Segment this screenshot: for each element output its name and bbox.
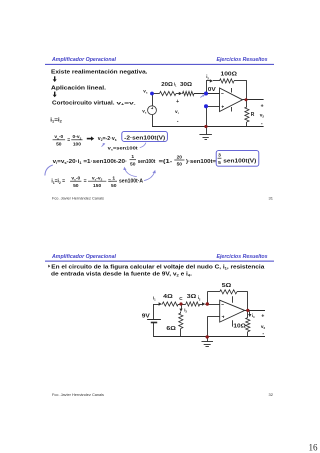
svg-text:1: 1 bbox=[131, 154, 134, 160]
svg-text:4Ω: 4Ω bbox=[163, 294, 173, 300]
svg-text:+: + bbox=[176, 99, 179, 105]
svg-text:vs-0: vs-0 bbox=[54, 134, 63, 140]
svg-text:v2: v2 bbox=[260, 114, 265, 119]
svg-text:=: = bbox=[84, 179, 87, 185]
svg-text:)·sen100t=: )·sen100t= bbox=[186, 159, 216, 165]
svg-text:32: 32 bbox=[269, 392, 274, 397]
svg-text:sen100t(V): sen100t(V) bbox=[223, 158, 256, 164]
svg-text:vs-0: vs-0 bbox=[71, 176, 80, 182]
svg-text:20: 20 bbox=[177, 154, 183, 160]
svg-text:-: - bbox=[177, 118, 179, 124]
svg-text:50: 50 bbox=[73, 183, 79, 189]
svg-text:50: 50 bbox=[56, 141, 62, 147]
svg-text:vi: vi bbox=[175, 110, 179, 115]
svg-text:Aplicación lineal.: Aplicación lineal. bbox=[51, 85, 106, 91]
svg-text:5: 5 bbox=[218, 160, 221, 166]
svg-text:-2·sen100t(V): -2·sen100t(V) bbox=[124, 136, 165, 142]
svg-text:50: 50 bbox=[130, 161, 136, 167]
svg-text:Ejercicios Resueltos: Ejercicios Resueltos bbox=[217, 254, 268, 260]
svg-text:Fco. Javier Hernández Canals: Fco. Javier Hernández Canals bbox=[52, 393, 104, 397]
svg-text:16: 16 bbox=[309, 443, 319, 453]
svg-text:-: - bbox=[262, 331, 264, 337]
svg-text:v2=-2·vs: v2=-2·vs bbox=[98, 136, 117, 142]
svg-text:9V: 9V bbox=[142, 313, 150, 319]
svg-text:100: 100 bbox=[73, 141, 81, 147]
svg-text:En el circuito de la figura ca: En el circuito de la figura calcular el … bbox=[51, 264, 265, 270]
svg-text:v+=v-: v+=v- bbox=[117, 102, 136, 107]
svg-text:Amplificador Operacional: Amplificador Operacional bbox=[51, 254, 116, 260]
svg-text:6Ω: 6Ω bbox=[166, 326, 176, 332]
svg-text:3: 3 bbox=[218, 153, 221, 159]
svg-text:Amplificador Operacional: Amplificador Operacional bbox=[51, 57, 116, 63]
svg-text:+: + bbox=[261, 313, 264, 319]
svg-text:5Ω: 5Ω bbox=[222, 283, 232, 289]
svg-text:vi=vs-20·i1 =1·sen100t-20·: vi=vs-20·i1 =1·sen100t-20· bbox=[53, 159, 128, 165]
svg-text:R: R bbox=[251, 112, 255, 118]
svg-text:Existe realimentación negativa: Existe realimentación negativa. bbox=[51, 69, 148, 75]
svg-text:10Ω: 10Ω bbox=[233, 324, 246, 330]
svg-text:Cortocircuito virtual.: Cortocircuito virtual. bbox=[52, 101, 115, 107]
svg-text:0V: 0V bbox=[208, 87, 217, 93]
svg-text:Fco. Javier Hernández Canals: Fco. Javier Hernández Canals bbox=[52, 196, 104, 200]
svg-text:sen100t·A: sen100t·A bbox=[119, 179, 143, 185]
svg-text:50: 50 bbox=[177, 162, 183, 168]
svg-text:100Ω: 100Ω bbox=[221, 72, 238, 78]
svg-text:-: - bbox=[261, 121, 263, 127]
svg-text:150: 150 bbox=[93, 183, 101, 189]
svg-text:50: 50 bbox=[111, 183, 117, 189]
svg-text:1: 1 bbox=[112, 176, 115, 182]
svg-text:+: + bbox=[261, 104, 264, 110]
svg-text:=: = bbox=[67, 137, 70, 143]
svg-text:sen100t: sen100t bbox=[138, 159, 156, 165]
svg-text:de entrada vista desde la fuen: de entrada vista desde la fuente de 9V, … bbox=[51, 271, 192, 277]
svg-text:Ejercicios Resueltos: Ejercicios Resueltos bbox=[217, 57, 268, 63]
svg-text:3Ω: 3Ω bbox=[187, 294, 197, 300]
svg-text:31: 31 bbox=[269, 195, 274, 200]
svg-text:v2: v2 bbox=[261, 325, 266, 330]
svg-text:30Ω: 30Ω bbox=[180, 82, 193, 88]
svg-text:20Ω: 20Ω bbox=[161, 82, 173, 88]
svg-text:vs-v2: vs-v2 bbox=[92, 177, 103, 182]
svg-text:=(1-: =(1- bbox=[159, 159, 173, 165]
